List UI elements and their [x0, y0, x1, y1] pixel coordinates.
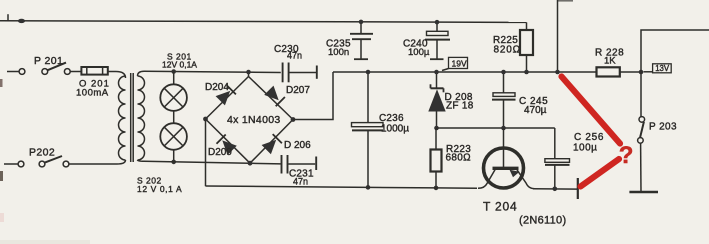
svg-text:D209: D209	[208, 147, 232, 158]
svg-text:19V: 19V	[452, 58, 467, 68]
transistor T204	[478, 128, 566, 227]
svg-text:1000µ: 1000µ	[381, 124, 409, 135]
svg-text:D204: D204	[205, 82, 229, 93]
node bridge left	[203, 117, 208, 122]
capacitor C245	[492, 72, 548, 128]
node bridge right	[291, 117, 296, 122]
svg-text:C236: C236	[379, 113, 404, 124]
svg-text:P 201: P 201	[34, 55, 63, 67]
node C236 bottom	[366, 185, 371, 190]
node C256 bottom	[553, 187, 558, 192]
red annotation stroke 1	[562, 77, 621, 144]
resistor R223	[431, 128, 472, 188]
node R223 bottom	[434, 186, 439, 191]
svg-text:(2N6110): (2N6110)	[519, 215, 566, 227]
terminal ground rail end	[577, 178, 579, 199]
lamp S201	[160, 52, 197, 111]
bridge rectifier frame	[206, 72, 294, 163]
node lamp bottom	[171, 160, 176, 165]
wire between lamps	[173, 111, 175, 123]
svg-text:47n: 47n	[287, 51, 302, 61]
fuse O201	[76, 67, 110, 99]
svg-text:12V 0,1A: 12V 0,1A	[162, 60, 197, 70]
svg-text:D207: D207	[286, 85, 310, 96]
capacitor C230	[274, 44, 317, 82]
svg-text:820Ω: 820Ω	[494, 45, 521, 56]
wire 19V rail	[333, 71, 597, 73]
svg-text:47n: 47n	[293, 177, 308, 187]
switch P202	[4, 147, 69, 167]
capacitor C256	[545, 132, 604, 189]
svg-text:12 V 0,1 A: 12 V 0,1 A	[137, 184, 182, 194]
wire base rail	[437, 127, 555, 129]
svg-text:13V: 13V	[655, 64, 670, 73]
svg-text:100n: 100n	[328, 47, 349, 58]
lamp S202	[137, 123, 187, 194]
svg-text:P202: P202	[29, 147, 55, 159]
svg-text:100mA: 100mA	[76, 88, 109, 99]
svg-text:4x 1N4003: 4x 1N4003	[227, 114, 281, 126]
diode D204	[205, 82, 236, 105]
scan edge marks	[0, 79, 3, 87]
wire bridge right to 19V rail	[293, 72, 333, 120]
node bridge bottom	[248, 161, 253, 166]
node R225 bottom	[524, 70, 529, 75]
node C245 top	[501, 70, 506, 75]
svg-text:1K: 1K	[604, 56, 616, 67]
node top feed	[555, 70, 560, 75]
transformer primary winding	[119, 76, 126, 160]
wire secondary bottom rail	[138, 160, 281, 164]
svg-text:680Ω: 680Ω	[446, 153, 472, 164]
wire primary bottom to P202	[69, 160, 126, 164]
node C236 top	[366, 70, 371, 75]
label box 19V	[442, 57, 468, 70]
diode D207	[264, 85, 310, 106]
zener D208	[428, 72, 473, 128]
wire ground rail	[206, 186, 478, 188]
transformer core	[130, 73, 132, 162]
capacitor C231	[282, 155, 317, 187]
wire top edge stub	[558, 0, 573, 2]
capacitor C235	[326, 22, 373, 59]
node C245 base rail	[501, 126, 506, 131]
node R228 right	[639, 70, 644, 75]
capacitor C236	[352, 72, 410, 187]
red annotation stroke 2	[581, 159, 620, 187]
svg-text:T 204: T 204	[483, 200, 517, 214]
label box 13V	[644, 64, 672, 73]
wire bridge left to ground rail	[205, 119, 207, 186]
capacitor C240	[403, 22, 450, 59]
svg-text:?: ?	[619, 142, 634, 169]
node lamp top	[171, 69, 176, 74]
diode D209	[208, 135, 237, 159]
svg-text:470µ: 470µ	[524, 105, 547, 116]
svg-text:ZF 18: ZF 18	[446, 101, 474, 112]
wire secondary top to C230	[138, 71, 281, 76]
resistor R225	[493, 22, 533, 72]
node C240 top	[435, 20, 440, 25]
node bridge top	[246, 70, 251, 75]
node C235 top	[359, 20, 364, 25]
svg-text:100µ: 100µ	[573, 143, 597, 154]
node on top rail	[18, 19, 25, 23]
node D208 R223 junction	[434, 126, 439, 131]
wire top right corner	[641, 30, 709, 117]
switch P203	[638, 117, 677, 192]
svg-text:C 256: C 256	[574, 132, 604, 143]
diode D206	[262, 134, 312, 154]
transformer secondary winding	[138, 76, 145, 160]
wire top feed vertical	[557, 0, 559, 72]
wire base corner down	[554, 128, 556, 159]
resistor R228	[595, 48, 624, 77]
terminal output bottom	[629, 191, 658, 193]
wire fuse to transformer	[108, 72, 126, 79]
svg-text:D 206: D 206	[284, 140, 311, 151]
wire top rail	[0, 21, 527, 23]
wire lamp bottom	[173, 150, 175, 162]
svg-text:100µ: 100µ	[408, 47, 430, 58]
node D208 top	[434, 70, 439, 75]
switch P201	[7, 55, 81, 74]
wire top-left stub	[7, 14, 9, 21]
svg-text:P 203: P 203	[649, 122, 677, 133]
